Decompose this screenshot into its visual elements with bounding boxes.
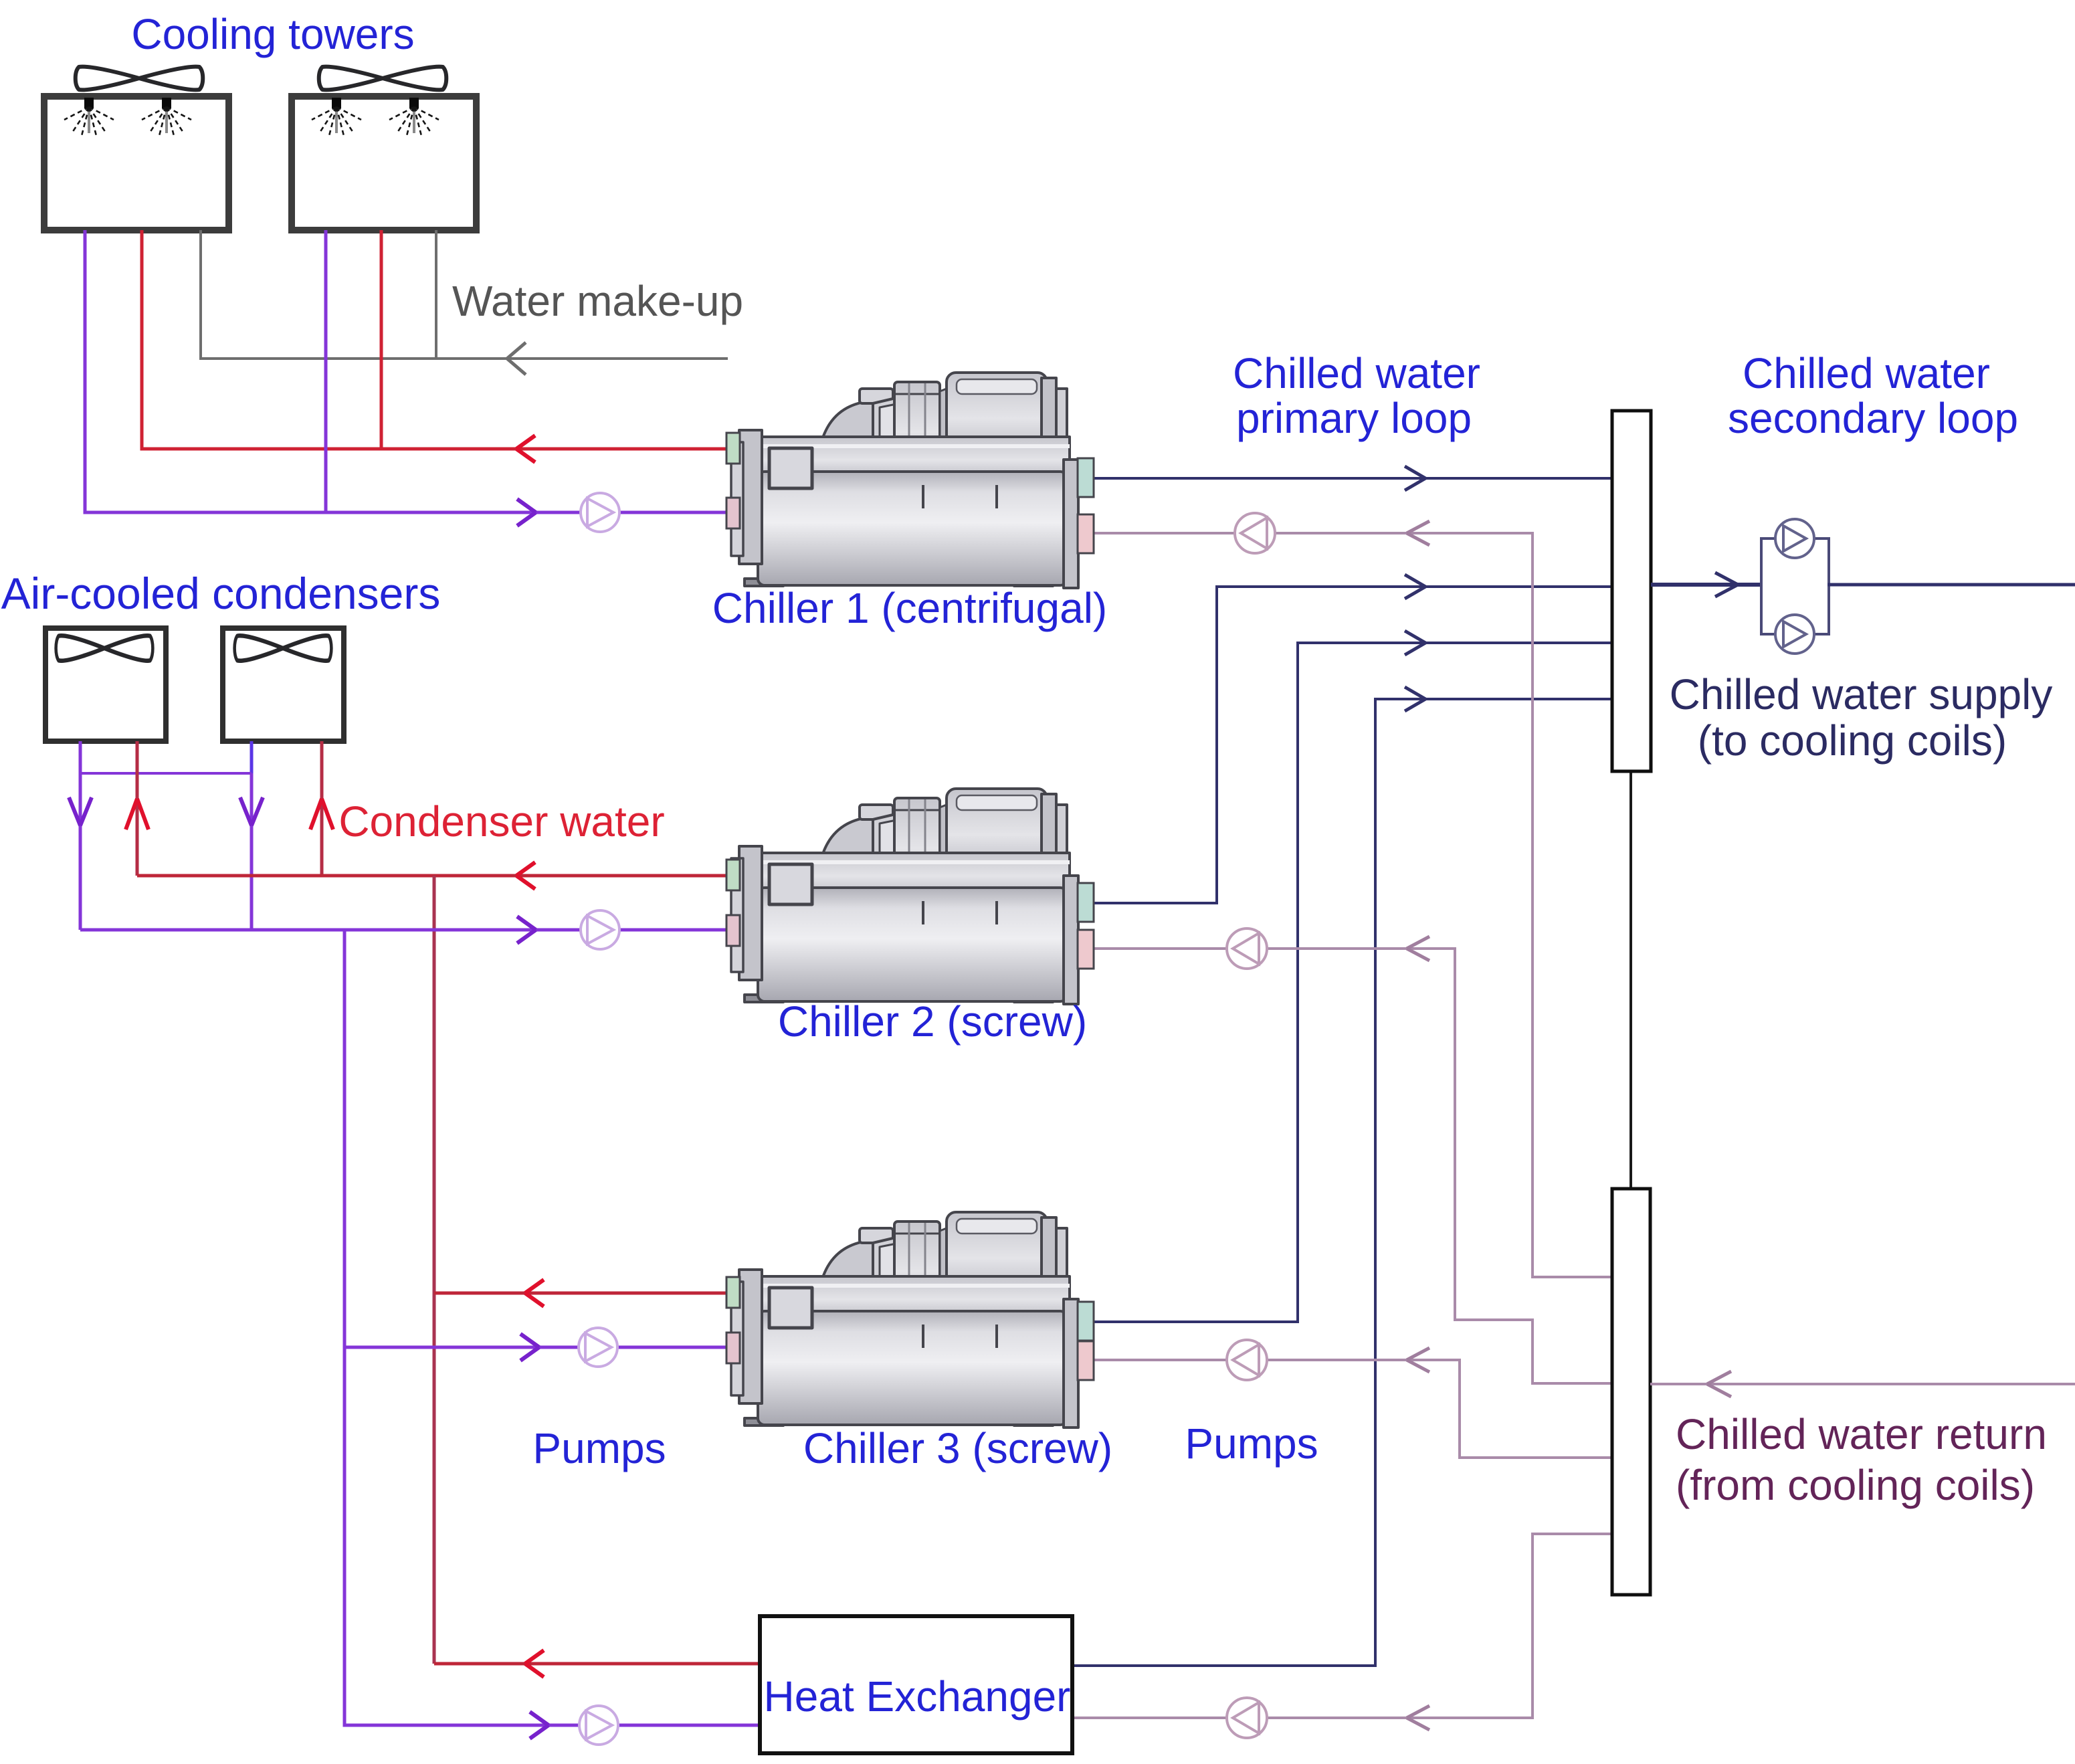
pump: primary pump chiller2 (1227, 928, 1267, 969)
arrow: mauve left c2 (1407, 937, 1429, 961)
wire: chilled supply chiller2 (navy) (1092, 587, 1612, 903)
wire: chilled return chiller1 (mauve) (1092, 533, 1612, 1277)
arrow: purple right at chiller1 (517, 499, 536, 526)
arrow: navy right c2 (1405, 575, 1425, 599)
CT2 spray nozzle right (389, 98, 439, 136)
AC1 fan (56, 635, 153, 661)
CT2 spray nozzle left (312, 98, 361, 136)
wire: chilled supply HX (navy) (1072, 699, 1612, 1666)
pump: primary pump chiller1 (1235, 513, 1275, 553)
arrow: make-up flow left (507, 342, 526, 375)
arrow: AC1 purple down (69, 797, 92, 825)
wire: chilled supply chiller3 (navy) (1092, 643, 1612, 1322)
chiller 1 machine (731, 373, 1078, 588)
arrow: navy right c3 (1405, 631, 1425, 655)
cooling tower CT2 fan (319, 67, 447, 90)
wire: main chilled return from coils (1650, 1383, 2075, 1385)
arrow: navy right c1 (1405, 466, 1425, 490)
wire: AC2 purple drop (250, 741, 254, 773)
arrow: mauve left c1 (1407, 521, 1429, 545)
pump: secondary pump bottom (1775, 615, 1814, 654)
svg-text:(from cooling coils): (from cooling coils) (1676, 1461, 2035, 1509)
pump: condenser pump HX (579, 1706, 618, 1745)
arrow: purple right at HX (530, 1712, 549, 1739)
arrow: AC2 purple down (240, 797, 263, 825)
arrow: red left at chiller1 (516, 435, 535, 462)
wire: chiller3 red branch (434, 1292, 731, 1295)
wire: chilled supply chiller1 (navy) (1092, 477, 1612, 480)
arrow: mauve left HX (1407, 1706, 1429, 1730)
wire: condenser water return to towers (red) (142, 230, 731, 449)
supply header (1612, 411, 1651, 771)
svg-text:Cooling towers: Cooling towers (131, 10, 414, 58)
chiller1 port nubs (726, 433, 1094, 553)
CT1 spray nozzle left (64, 98, 114, 136)
pump: primary pump HX (1227, 1698, 1267, 1738)
wire: condenser red vertical (433, 876, 436, 1664)
svg-text:Pumps: Pumps (1185, 1419, 1318, 1468)
wire: chilled return HX (mauve) (1072, 1534, 1612, 1718)
secondary pump bridge (1761, 538, 1829, 634)
cooling tower CT1 box (44, 96, 229, 230)
arrow: secondary right (1715, 573, 1738, 597)
chiller3 port nubs (726, 1277, 1094, 1380)
svg-text:Chiller 3 (screw): Chiller 3 (screw) (803, 1424, 1112, 1472)
arrow: navy right HX (1405, 687, 1425, 711)
arrow: AC2 red up (310, 799, 333, 829)
arrow: red left at chiller3 (525, 1280, 544, 1306)
wire: condenser purple vertical (344, 930, 760, 1725)
arrow: purple right at chiller2 (517, 916, 536, 943)
svg-text:Chiller 2 (screw): Chiller 2 (screw) (778, 997, 1087, 1046)
arrow: mauve left c3 (1407, 1348, 1429, 1372)
arrow: main return left (1707, 1371, 1731, 1397)
svg-text:Chiller 1 (centrifugal): Chiller 1 (centrifugal) (712, 584, 1107, 632)
wire: chilled return chiller2 (mauve) (1092, 949, 1612, 1383)
header connector (black) (1629, 769, 1632, 1189)
svg-text:Pumps: Pumps (532, 1424, 666, 1472)
wire: make-up water (gray) (201, 230, 728, 359)
wire: HX red branch (434, 1662, 760, 1666)
svg-text:secondary loop: secondary loop (1728, 394, 2018, 442)
wire: condenser red main (AC to chiller2) (137, 874, 731, 878)
wire: chiller3 purple branch (344, 1346, 731, 1349)
svg-text:primary loop: primary loop (1236, 394, 1472, 442)
wire: AC1 purple drop (79, 741, 82, 930)
wire: AC2 red riser (320, 741, 324, 876)
arrow: AC1 red up (126, 799, 149, 829)
svg-text:Chilled water: Chilled water (1233, 349, 1480, 397)
svg-text:Heat Exchanger: Heat Exchanger (764, 1672, 1071, 1721)
svg-text:Condenser water: Condenser water (338, 797, 664, 846)
svg-text:Water make-up: Water make-up (452, 277, 743, 325)
air-cooled condenser AC2 box (223, 628, 344, 741)
svg-text:Air-cooled condensers: Air-cooled condensers (1, 569, 441, 618)
wire: condenser water supply from towers (purple) (85, 230, 731, 512)
svg-text:(to cooling coils): (to cooling coils) (1698, 716, 2007, 765)
wire: AC1 red riser (136, 741, 139, 876)
pump: condenser pump chiller3 (579, 1328, 617, 1367)
wire: chilled return chiller3 (mauve) (1092, 1360, 1612, 1458)
chiller 2 machine (731, 789, 1078, 1004)
cooling tower CT1 fan (76, 67, 203, 90)
svg-text:Chilled water return: Chilled water return (1676, 1410, 2047, 1458)
wire: condenser purple main (AC to chiller2) (80, 928, 731, 932)
air-cooled condenser AC1 box (45, 628, 166, 741)
svg-text:Chilled water supply: Chilled water supply (1670, 670, 2053, 718)
arrow: red left at HX (525, 1650, 544, 1677)
cooling tower CT2 box (292, 96, 476, 230)
chiller 3 machine (731, 1212, 1078, 1428)
return header (1612, 1189, 1650, 1595)
wire: secondary supply out (1827, 583, 2075, 587)
pump: secondary pump top (1775, 519, 1814, 558)
heat exchanger box (760, 1616, 1072, 1753)
chiller2 port nubs (726, 860, 1094, 969)
CT1 spray nozzle right (142, 98, 191, 136)
pump: condenser pump chiller1 (581, 493, 619, 532)
wire: purple connector between condensers (80, 772, 252, 775)
AC2 fan (235, 635, 332, 661)
pump: condenser pump chiller2 (581, 910, 619, 949)
arrow: red left at chiller2 (516, 862, 535, 889)
arrow: purple right at chiller3 (520, 1334, 539, 1361)
wire: secondary supply (thick navy) (1651, 583, 1762, 587)
pump: primary pump chiller3 (1227, 1340, 1267, 1380)
svg-text:Chilled water: Chilled water (1743, 349, 1990, 397)
